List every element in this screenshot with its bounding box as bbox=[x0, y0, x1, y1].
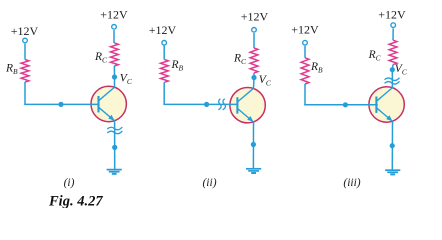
svg-text:+12V: +12V bbox=[149, 23, 177, 37]
svg-text:+12V: +12V bbox=[100, 8, 128, 22]
svg-text:RB: RB bbox=[5, 63, 18, 77]
svg-text:VC: VC bbox=[120, 72, 133, 86]
svg-text:+12V: +12V bbox=[378, 8, 406, 22]
svg-text:(i): (i) bbox=[64, 177, 75, 189]
svg-text:+12V: +12V bbox=[241, 9, 269, 23]
svg-text:Fig. 4.27: Fig. 4.27 bbox=[48, 194, 103, 208]
svg-text:VC: VC bbox=[259, 74, 272, 88]
svg-text:(ii): (ii) bbox=[202, 177, 216, 189]
svg-text:RC: RC bbox=[233, 53, 247, 67]
svg-text:+12V: +12V bbox=[11, 24, 39, 38]
svg-text:VC: VC bbox=[395, 63, 408, 77]
svg-text:RB: RB bbox=[171, 59, 184, 73]
svg-text:+12V: +12V bbox=[291, 23, 319, 37]
svg-text:RC: RC bbox=[94, 51, 108, 65]
svg-text:(iii): (iii) bbox=[343, 177, 360, 189]
svg-text:RC: RC bbox=[368, 49, 382, 63]
svg-text:RB: RB bbox=[310, 61, 323, 75]
